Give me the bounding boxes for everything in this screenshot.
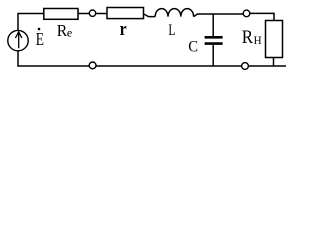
voltage source E1 bbox=[8, 30, 28, 50]
terminal: output bottom bbox=[242, 63, 249, 70]
terminal: input bottom bbox=[89, 62, 96, 69]
svg-text:r: r bbox=[120, 19, 127, 40]
wire (output terminal to Rn) bbox=[250, 13, 274, 20]
terminal: input top bbox=[89, 10, 95, 16]
svg-text:R: R bbox=[242, 27, 254, 48]
wire top-left (from source up and right to Re) bbox=[18, 14, 44, 31]
terminal: output top bbox=[243, 10, 250, 17]
svg-text:E: E bbox=[36, 29, 44, 49]
svg-text:C: C bbox=[188, 38, 198, 55]
label Rн bbox=[242, 27, 262, 48]
inductor L1 bbox=[155, 9, 193, 17]
capacitor C1 bbox=[205, 14, 223, 66]
label E (with dot above) bbox=[36, 28, 44, 49]
wire (input terminal to r) bbox=[96, 13, 107, 15]
wire bottom rail (left corner to right overshoot) bbox=[18, 51, 286, 66]
label Re bbox=[57, 21, 72, 40]
wire (L to output terminal, through C node) bbox=[194, 14, 244, 17]
svg-text:Н: Н bbox=[254, 33, 262, 47]
resistor Rн bbox=[266, 21, 283, 58]
resistor r bbox=[107, 8, 144, 19]
wire (Rн bottom to rail) bbox=[273, 58, 275, 67]
resistor Re bbox=[44, 9, 78, 20]
wire (Re to input terminal) bbox=[78, 13, 89, 15]
svg-text:L: L bbox=[168, 22, 175, 39]
svg-text:e: e bbox=[67, 25, 72, 39]
wire (r to L) bbox=[144, 14, 156, 17]
